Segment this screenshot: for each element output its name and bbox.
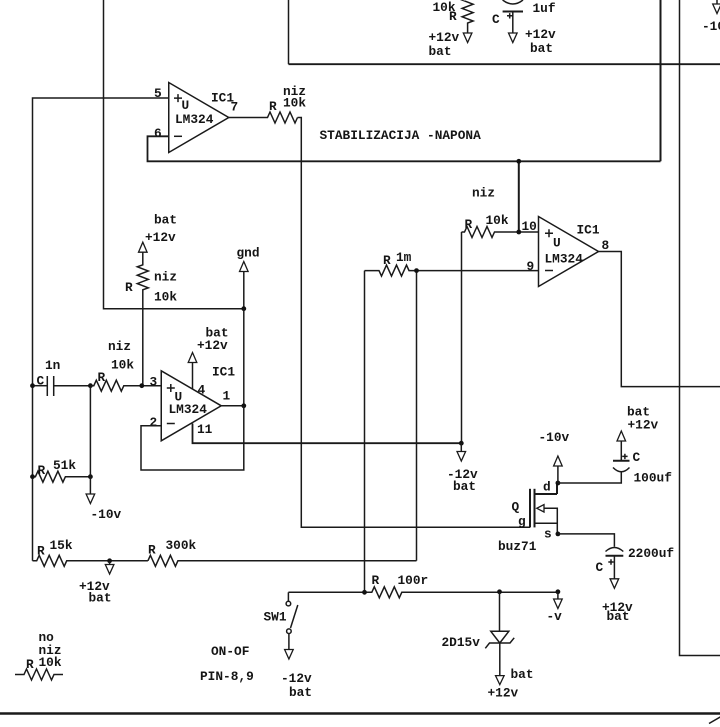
svg-text:C: C	[37, 374, 45, 389]
svg-text:3: 3	[150, 375, 158, 390]
svg-text:s: s	[544, 527, 552, 542]
wire thick vertical bus	[660, 0, 662, 161]
power -12v arrow below top capacitor	[509, 27, 557, 56]
power -12v arrow below top resistor	[429, 30, 472, 59]
node junction niz resistor to pin3 line	[139, 383, 144, 388]
svg-text:R: R	[26, 657, 34, 672]
svg-text:gnd: gnd	[237, 246, 260, 261]
svg-text:R: R	[383, 253, 391, 268]
svg-text:PIN-8,9: PIN-8,9	[200, 669, 254, 684]
wire op-amp3 output pin 1	[221, 405, 244, 407]
svg-text:300k: 300k	[166, 538, 197, 553]
switch SW1	[264, 592, 298, 649]
node junction on stabilization bus	[516, 159, 521, 164]
node junction cap to rail	[30, 383, 35, 388]
wire gnd node down to op-amp3 output	[243, 309, 245, 406]
node junction pin 10	[516, 230, 521, 235]
wire pin 6 feedback to stabilization bus	[148, 136, 661, 161]
svg-text:R: R	[125, 280, 133, 295]
svg-text:ON-OF: ON-OF	[211, 644, 249, 659]
svg-text:100r: 100r	[398, 573, 429, 588]
svg-text:LM324: LM324	[169, 402, 208, 417]
power -10v arrow above drain	[539, 430, 570, 483]
wire 10k left lead down to -12v rail	[461, 232, 463, 443]
svg-text:Q: Q	[512, 500, 520, 515]
svg-text:2: 2	[150, 415, 158, 430]
node junction pin3 line	[88, 383, 93, 388]
wire top box left edge	[288, 0, 290, 64]
svg-text:51k: 51k	[53, 458, 76, 473]
node junction gnd rail	[241, 306, 246, 311]
svg-text:R: R	[269, 99, 277, 114]
svg-text:bat: bat	[429, 44, 452, 59]
svg-text:-12v: -12v	[281, 671, 312, 686]
node junction 1m rail on 100r line	[362, 590, 367, 595]
resistor R 1m feedback	[365, 250, 417, 276]
svg-text:5: 5	[154, 86, 162, 101]
power -v arrow below source node	[547, 592, 563, 624]
resistor R 300k	[148, 538, 417, 566]
resistor R 10k niz vertical	[125, 252, 177, 386]
svg-text:100uf: 100uf	[634, 471, 673, 486]
svg-text:buz71: buz71	[498, 539, 537, 554]
svg-text:6: 6	[154, 126, 162, 141]
svg-text:U: U	[553, 236, 561, 251]
wire top box bottom edge	[289, 63, 720, 65]
svg-text:bat: bat	[511, 667, 534, 682]
svg-text:-10v: -10v	[702, 19, 720, 34]
wire right vertical rail	[680, 0, 720, 656]
frame corner diagonal	[709, 717, 720, 724]
svg-text:7: 7	[231, 100, 239, 115]
wire feedback output to pin 2	[141, 406, 244, 470]
svg-text:LM324: LM324	[175, 112, 214, 127]
svg-text:10k: 10k	[111, 358, 134, 373]
svg-text:R: R	[98, 370, 106, 385]
power +12v bat arrow above resistor niz 10k	[139, 213, 178, 253]
wire left tall rail from top to gnd line	[104, 0, 244, 309]
power +12v bat arrow at pin 4	[188, 326, 228, 390]
wire source node to 2200uf	[558, 534, 615, 547]
node junction zener on 100r line	[497, 589, 502, 594]
svg-text:R: R	[37, 544, 45, 559]
op-amp U2 IC1 LM324 pins 10,9,8	[539, 217, 600, 287]
resistor R 100r	[288, 573, 558, 598]
svg-text:10k: 10k	[486, 213, 509, 228]
svg-text:bat: bat	[453, 479, 476, 494]
svg-text:1n: 1n	[45, 358, 60, 373]
wire 1m left lead down to 100r node	[364, 271, 366, 593]
svg-text:R: R	[449, 9, 457, 24]
resistor R 10k no niz standalone	[15, 630, 63, 680]
svg-text:C: C	[492, 12, 500, 27]
power -10v arrow top right corner (clipped)	[702, 0, 720, 34]
power +12v bat arrow below zener	[488, 667, 534, 701]
svg-text:15k: 15k	[50, 538, 73, 553]
svg-text:U: U	[182, 98, 190, 113]
node junction drain	[556, 481, 561, 486]
wire pin 9 node down to 300k line	[416, 271, 418, 561]
svg-text:+12v: +12v	[145, 230, 176, 245]
svg-text:-10v: -10v	[91, 507, 122, 522]
capacitor C 100uf	[613, 441, 672, 486]
svg-text:11: 11	[197, 422, 213, 437]
zener diode 2D15v	[442, 592, 515, 676]
svg-text:C: C	[633, 450, 641, 465]
svg-text:bat: bat	[607, 609, 630, 624]
node junction 51k left	[30, 474, 35, 479]
node junction pin 9	[414, 268, 419, 273]
node junction source	[556, 532, 561, 537]
svg-text:+12v: +12v	[628, 418, 659, 433]
wire op-amp1 output down to MOSFET gate	[298, 118, 531, 528]
power -12v bat arrow on rail	[447, 441, 478, 494]
svg-text:-v: -v	[547, 609, 563, 624]
svg-text:2200uf: 2200uf	[628, 546, 674, 561]
svg-text:d: d	[543, 480, 551, 495]
resistor R 15k	[33, 538, 148, 566]
svg-text:10k: 10k	[39, 655, 62, 670]
resistor R 10k niz at pin 10	[462, 186, 539, 238]
power -10v arrow below 51k	[86, 477, 121, 522]
wire op-amp2 output pin 8 to right rail	[599, 252, 720, 387]
svg-text:10: 10	[522, 219, 537, 234]
node junction 51k right	[88, 474, 93, 479]
wire pin 11 to -12v rail	[193, 424, 462, 444]
svg-text:+12v: +12v	[525, 27, 556, 42]
capacitor C 1uf top	[492, 0, 556, 33]
power +12v bat arrow on 15k line	[79, 558, 114, 605]
wire pin3 node down to 51k	[89, 386, 91, 477]
capacitor C 2200uf	[596, 546, 675, 579]
wire stabilization bus drop to pin 10	[518, 161, 520, 232]
wire pin5 input rail	[33, 98, 170, 561]
svg-text:+12v: +12v	[197, 338, 228, 353]
svg-text:bat: bat	[154, 213, 177, 228]
svg-text:niz: niz	[154, 270, 177, 285]
power -12v bat arrow below SW1	[281, 650, 312, 701]
svg-text:bat: bat	[89, 591, 112, 606]
power +12v bat arrow above 100uf	[617, 405, 659, 442]
svg-text:LM324: LM324	[545, 252, 584, 267]
svg-text:niz: niz	[108, 339, 131, 354]
node junction output pin 1	[241, 403, 246, 408]
svg-text:10k: 10k	[283, 96, 306, 111]
svg-text:R: R	[38, 463, 46, 478]
svg-text:STABILIZACIJA -NAPONA: STABILIZACIJA -NAPONA	[320, 128, 482, 143]
svg-text:9: 9	[527, 259, 535, 274]
svg-text:10k: 10k	[154, 290, 177, 305]
svg-text:C: C	[596, 560, 604, 575]
svg-text:IC1: IC1	[577, 223, 600, 238]
resistor R 51k	[33, 458, 91, 482]
svg-text:bat: bat	[530, 41, 553, 56]
svg-text:SW1: SW1	[264, 610, 287, 625]
svg-text:bat: bat	[289, 685, 312, 700]
svg-text:R: R	[148, 543, 156, 558]
wire drain node to 100uf	[558, 472, 621, 483]
svg-text:IC1: IC1	[212, 365, 235, 380]
svg-text:+12v: +12v	[429, 30, 460, 45]
svg-text:niz: niz	[472, 186, 495, 201]
svg-text:4: 4	[198, 383, 206, 398]
svg-text:g: g	[518, 514, 526, 529]
svg-text:1: 1	[223, 389, 231, 404]
wire pin 9 input line	[417, 270, 539, 272]
resistor R 10k top	[433, 0, 474, 33]
ground symbol gnd	[237, 246, 260, 309]
svg-text:+12v: +12v	[488, 686, 519, 701]
capacitor C 1n input	[33, 358, 91, 396]
op-amp U1 IC1 LM324 pins 5,6,7	[169, 83, 238, 153]
svg-text:1m: 1m	[396, 250, 412, 265]
resistor R 10k niz at pin 3	[90, 339, 161, 391]
svg-text:-10v: -10v	[539, 430, 570, 445]
power +12v bat arrow below 2200uf	[602, 579, 633, 624]
node junction MOSFET source on 100r line	[556, 589, 561, 594]
op-amp U3 IC1 LM324 pins 3,2,1	[161, 365, 235, 441]
svg-text:R: R	[465, 217, 473, 232]
svg-text:1uf: 1uf	[533, 1, 556, 16]
resistor R 10k niz at op-amp1 output	[229, 84, 307, 123]
transistor Q buz71 MOSFET	[498, 480, 557, 555]
svg-text:2D15v: 2D15v	[442, 635, 481, 650]
bottom frame border	[0, 712, 720, 715]
svg-text:R: R	[372, 573, 380, 588]
